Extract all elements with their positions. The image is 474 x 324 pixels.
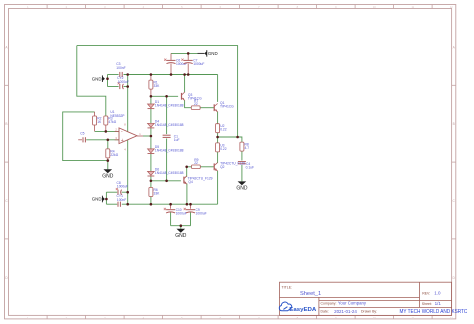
svg-text:+: + <box>121 138 124 144</box>
svg-text:33K: 33K <box>154 191 161 195</box>
svg-text:1N4148_C4930188: 1N4148_C4930188 <box>155 123 184 127</box>
svg-text:GND: GND <box>92 76 102 81</box>
svg-text:1uF: 1uF <box>174 138 180 142</box>
svg-text:100nF: 100nF <box>116 66 125 70</box>
svg-text:Your Company: Your Company <box>338 300 367 305</box>
svg-text:0.22: 0.22 <box>220 128 227 132</box>
svg-text:NE5532P: NE5532P <box>110 114 125 118</box>
svg-text:1000uF: 1000uF <box>196 211 207 215</box>
svg-text:REV:: REV: <box>422 291 430 295</box>
svg-text:Drawn By:: Drawn By: <box>361 310 377 314</box>
svg-text:1/1: 1/1 <box>435 301 442 306</box>
svg-text:GND: GND <box>102 174 114 180</box>
svg-text:Sheet:: Sheet: <box>422 302 432 306</box>
svg-text:TITLE:: TITLE: <box>282 285 293 289</box>
svg-text:2021-01-24: 2021-01-24 <box>334 309 357 314</box>
svg-text:GND: GND <box>175 233 187 239</box>
svg-text:1N4148_C4930188: 1N4148_C4930188 <box>155 149 184 153</box>
svg-text:Sheet_1: Sheet_1 <box>300 291 321 297</box>
svg-text:100nF: 100nF <box>117 198 126 202</box>
svg-text:22kΩ: 22kΩ <box>110 153 118 157</box>
svg-text:4.7: 4.7 <box>245 146 250 150</box>
svg-text:Date:: Date: <box>321 310 329 314</box>
svg-text:1N4148_C4930188: 1N4148_C4930188 <box>155 104 184 108</box>
svg-text:1000uF: 1000uF <box>118 80 129 84</box>
svg-text:0.1uF: 0.1uF <box>246 166 254 170</box>
svg-text:22: 22 <box>194 102 198 106</box>
svg-text:1000uF: 1000uF <box>176 211 187 215</box>
svg-text:TIP41CG: TIP41CG <box>188 97 202 101</box>
svg-text:Q2: Q2 <box>220 165 225 169</box>
svg-text:GND: GND <box>208 51 218 56</box>
svg-text:B: B <box>5 122 7 126</box>
svg-text:1000uF: 1000uF <box>193 62 204 66</box>
svg-text:TIP41CG: TIP41CG <box>220 104 234 108</box>
svg-text:1000uF: 1000uF <box>117 184 128 188</box>
svg-text:EasyEDA: EasyEDA <box>289 307 317 313</box>
svg-text:1N4148_C4930188: 1N4148_C4930188 <box>155 171 184 175</box>
svg-text:C5: C5 <box>80 132 84 136</box>
svg-text:Company:: Company: <box>321 301 337 305</box>
svg-text:GND: GND <box>92 197 102 202</box>
svg-text:1.0: 1.0 <box>434 291 441 296</box>
svg-text:22: 22 <box>194 161 198 165</box>
svg-text:B: B <box>453 122 455 126</box>
svg-text:MY TECH WORLD AND KSRTC: MY TECH WORLD AND KSRTC <box>400 309 468 315</box>
svg-text:GND: GND <box>236 186 248 192</box>
svg-text:0.22: 0.22 <box>220 147 227 151</box>
svg-text:33K: 33K <box>154 84 161 88</box>
svg-text:Q4: Q4 <box>188 180 193 184</box>
svg-text:47kΩ: 47kΩ <box>108 120 116 124</box>
